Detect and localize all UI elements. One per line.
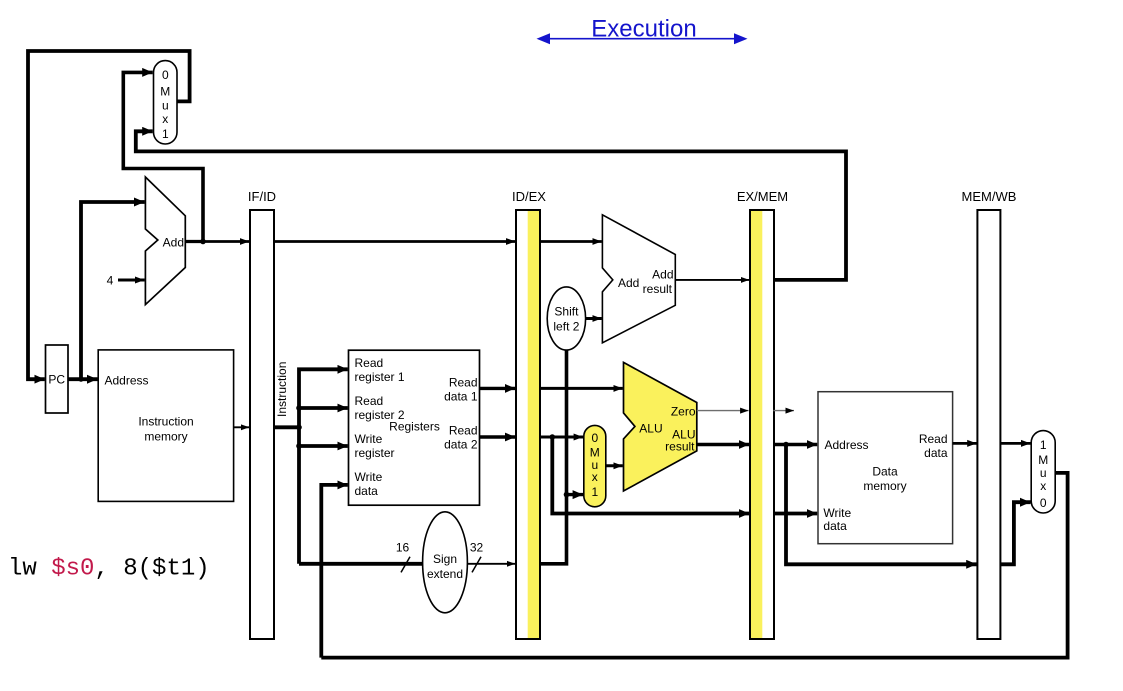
wire: ALU result to EX/MEM — [697, 443, 750, 447]
svg-text:x: x — [592, 470, 598, 484]
wire: EX/MEM ALU result to data memory address — [774, 443, 817, 447]
registers file box — [349, 350, 480, 505]
wire: EX/MEM zero stub — [773, 410, 794, 412]
junction PC output — [78, 377, 83, 382]
svg-text:Write: Write — [823, 506, 851, 520]
svg-text:Read: Read — [449, 376, 478, 390]
svg-text:Shift: Shift — [554, 305, 579, 319]
svg-text:Address: Address — [825, 438, 869, 452]
svg-text:result: result — [665, 439, 695, 453]
instruction memory box — [98, 350, 233, 502]
wire: mux M2 output to ALU input 2 — [606, 464, 623, 467]
instruction text "lw $s0, 8($t1)" — [8, 556, 210, 583]
wire: bus to sign extend — [299, 562, 423, 566]
svg-text:M: M — [160, 85, 170, 99]
wire: PC to instruction memory address — [68, 377, 98, 381]
svg-text:M: M — [1038, 453, 1048, 467]
svg-text:0: 0 — [162, 68, 169, 82]
junction Add output — [200, 239, 206, 245]
wire: IF/ID instruction to register-file bus — [274, 425, 299, 429]
svg-text:MEM/WB: MEM/WB — [962, 189, 1017, 204]
svg-text:EX/MEM: EX/MEM — [737, 189, 788, 204]
PC register — [46, 345, 69, 413]
wire: mux M3 output write-back loop to registers — [321, 473, 1067, 658]
wire: sign extend output to ID/EX — [468, 563, 516, 565]
wire: branch adder result to EX/MEM — [675, 279, 749, 281]
slash 32-bit — [472, 557, 481, 573]
wire: read data 2 down and to EX/MEM write data — [552, 437, 749, 514]
wire: Add output stub — [185, 240, 203, 243]
wire: ALU result bypass after MEM/WB into mux M3 input 0 — [1000, 502, 1030, 564]
svg-text:0: 0 — [1040, 496, 1047, 510]
svg-text:x: x — [1040, 479, 1046, 493]
wire: MEM/WB read data to mux M3 input 1 — [1000, 442, 1030, 445]
svg-text:Sign: Sign — [433, 552, 457, 566]
wire: ID/EX immediate up to shift left 2 and mux M2 input 1 — [540, 350, 567, 564]
svg-text:Add: Add — [163, 236, 184, 250]
wire: ALU result bypass down to MEM/WB — [786, 445, 977, 565]
wire: execution span line — [545, 38, 739, 40]
svg-text:x: x — [162, 112, 168, 126]
svg-text:IF/ID: IF/ID — [248, 189, 276, 204]
wire: Add output up and into mux M1 input 0 — [123, 72, 203, 241]
svg-text:Instruction: Instruction — [138, 415, 193, 429]
junction bus/instruction in — [296, 425, 302, 431]
svg-text:Address: Address — [105, 373, 149, 387]
svg-text:data: data — [355, 484, 379, 498]
pipeline register IF/ID — [248, 189, 276, 639]
wire: instruction memory to IF/ID — [234, 426, 250, 428]
arrowhead left (blue) — [537, 33, 551, 44]
wire: immediate branch to mux M2 input 1 — [567, 493, 584, 496]
mux M3 (write-back mux) — [1031, 431, 1055, 513]
data memory box — [818, 392, 953, 544]
wire: 4 into Add — [118, 279, 145, 282]
junction bus/write register — [296, 443, 302, 449]
sign extend unit — [423, 512, 468, 613]
svg-text:Execution: Execution — [591, 16, 696, 43]
wire: ID/EX read data 2 to mux M2 input 0 — [540, 436, 583, 439]
wire: ID/EX read data 1 to ALU input 1 — [540, 387, 623, 390]
svg-text:1: 1 — [162, 127, 169, 141]
svg-text:Write: Write — [355, 470, 383, 484]
svg-text:Read: Read — [449, 424, 478, 438]
arrowhead right (blue) — [734, 33, 748, 44]
svg-text:ID/EX: ID/EX — [512, 189, 546, 204]
wire: read data 2 to ID/EX — [480, 435, 516, 438]
svg-text:data 2: data 2 — [444, 438, 478, 452]
adder A2 (branch target) — [602, 215, 675, 343]
slash 16-bit — [401, 557, 410, 573]
svg-text:4: 4 — [107, 274, 114, 288]
svg-text:Add: Add — [652, 268, 673, 282]
junction immediate/mux M2 — [564, 492, 570, 498]
pipeline register EX/MEM (left half highlighted) — [737, 189, 788, 639]
svg-text:memory: memory — [144, 430, 187, 444]
junction read data 2 — [550, 434, 556, 440]
junction ALU result — [783, 442, 789, 448]
wire: EX/MEM write data to data memory — [774, 512, 817, 516]
svg-text:data 1: data 1 — [444, 390, 478, 404]
svg-text:Add: Add — [618, 276, 639, 290]
ALU (highlighted) — [624, 362, 697, 491]
svg-text:left 2: left 2 — [553, 320, 579, 334]
svg-text:extend: extend — [427, 567, 463, 581]
svg-text:data: data — [823, 519, 847, 533]
stage header arrow "Execution" — [537, 16, 748, 45]
svg-text:PC: PC — [48, 373, 65, 387]
wire: Add output through to IF/ID — [203, 240, 249, 243]
svg-text:Write: Write — [355, 432, 383, 446]
mux M1 (PC source mux, top left) — [154, 61, 178, 144]
wire: mux M1 output to PC (right, up, left, down) — [28, 51, 190, 379]
svg-text:32: 32 — [470, 541, 484, 555]
svg-text:16: 16 — [396, 541, 410, 555]
svg-text:memory: memory — [863, 479, 906, 493]
wire: bus to read register 2 — [299, 406, 348, 410]
svg-text:u: u — [162, 99, 169, 113]
svg-text:Read: Read — [355, 394, 384, 408]
junction bus/read register 2 — [296, 405, 302, 411]
wire: branch target feedback from EX/MEM to mux M1 input 1 — [136, 131, 846, 280]
adder A1 (PC+4) — [145, 177, 185, 305]
svg-text:Instruction: Instruction — [275, 362, 289, 417]
svg-text:Zero: Zero — [671, 405, 696, 419]
svg-text:register 1: register 1 — [355, 370, 405, 384]
svg-text:data: data — [924, 446, 948, 460]
wire: shift left 2 to branch adder — [586, 317, 602, 320]
pipeline register MEM/WB — [962, 189, 1017, 639]
wire: ALU zero to EX/MEM (thin gray) — [697, 410, 749, 412]
svg-text:result: result — [643, 282, 673, 296]
svg-text:0: 0 — [591, 431, 598, 445]
wire: write-back into write data port — [321, 485, 348, 658]
svg-text:Data: Data — [872, 465, 898, 479]
pipeline register ID/EX (right half highlighted) — [512, 189, 546, 639]
svg-text:register: register — [355, 446, 395, 460]
svg-text:u: u — [1040, 466, 1047, 480]
svg-text:ALU: ALU — [639, 421, 662, 435]
svg-text:1: 1 — [1040, 438, 1047, 452]
wire: ID/EX pc+4 to branch adder — [540, 240, 602, 243]
svg-text:Read: Read — [919, 432, 948, 446]
svg-text:Read: Read — [355, 356, 384, 370]
wire: IF/ID pc+4 to ID/EX — [274, 240, 515, 243]
svg-text:1: 1 — [591, 485, 598, 499]
wire: read data 1 to ID/EX — [480, 387, 516, 390]
svg-text:lw $s0, 8($t1): lw $s0, 8($t1) — [8, 556, 210, 583]
mux M2 (ALU operand mux, highlighted) — [584, 425, 606, 506]
wire: PC up to Add input 1 — [81, 202, 145, 379]
wire: data memory read data to MEM/WB — [953, 442, 977, 445]
svg-text:Registers: Registers — [389, 420, 440, 434]
shift left 2 unit — [547, 287, 585, 350]
wire: instruction bus vertical — [299, 369, 348, 564]
wire: bus to write register — [299, 444, 348, 448]
